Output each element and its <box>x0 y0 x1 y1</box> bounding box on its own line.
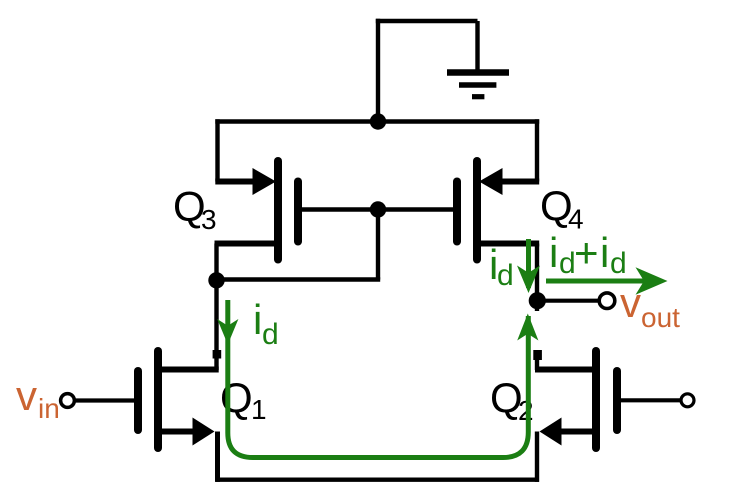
transistor Q4 source stub <box>502 179 539 185</box>
svg-text:out: out <box>641 302 680 333</box>
terminal Q2 gate open circle <box>681 394 694 407</box>
wire right column nub <box>533 350 542 360</box>
svg-text:v: v <box>620 279 641 326</box>
arrowhead id+id right <box>636 267 668 295</box>
svg-text:d: d <box>262 318 279 351</box>
transistor Q2 source arrow <box>540 418 562 446</box>
wire Vout lead <box>537 299 598 303</box>
svg-text:+: + <box>574 229 599 276</box>
svg-text:d: d <box>497 259 514 292</box>
wire top horizontal to ground <box>376 19 478 23</box>
transistor Q3 source stub <box>215 179 255 185</box>
transistor Q1 channel bar <box>154 351 162 448</box>
wire gate rail Q3-Q4 <box>300 207 456 211</box>
terminal Vout open circle <box>599 293 615 309</box>
wire right column lower segment (to Q2 drain) <box>535 351 539 371</box>
svg-text:i: i <box>600 229 609 276</box>
transistor Q2 channel bar <box>592 351 600 448</box>
svg-text:d: d <box>610 247 627 280</box>
white patch where green arrow box erases right column <box>515 311 543 350</box>
current arrow id+id output <box>546 279 652 284</box>
wire vin lead <box>75 398 135 402</box>
arrowhead id down (left branch) <box>217 319 238 345</box>
transistor Q1 source stub <box>158 429 196 435</box>
transistor Q4 gate bar <box>453 182 461 242</box>
transistor Q4 drain stub <box>479 241 539 247</box>
node rail-center junction dot <box>370 113 386 129</box>
node Vout junction dot <box>529 292 546 309</box>
current arrow id at Q4 drain <box>526 239 531 288</box>
transistor Q2 drain stub <box>535 367 596 373</box>
wire ground stub <box>475 21 479 70</box>
ground <box>447 73 509 97</box>
transistor Q3 drain stub <box>215 241 276 247</box>
wire left column nub <box>213 350 222 359</box>
transistor Q2 gate bar <box>613 371 621 430</box>
svg-text:2: 2 <box>518 395 534 426</box>
node left drain junction dot <box>208 272 224 288</box>
svg-text:1: 1 <box>251 394 267 425</box>
wire left column mid (Q3 drain to Q1 drain) <box>214 244 218 371</box>
transistor Q3 gate bar <box>294 182 302 242</box>
arrowhead id down (Q4 drain) <box>517 266 540 294</box>
transistor Q2 source stub <box>558 429 596 435</box>
wire diode-connect horizontal <box>217 277 381 281</box>
wire bottom rail <box>216 478 540 482</box>
wire VDD rail <box>215 119 539 123</box>
transistor Q4 channel bar <box>473 161 481 260</box>
svg-text:i: i <box>253 296 262 343</box>
transistor Q4 source arrow <box>479 168 503 195</box>
svg-text:Q: Q <box>220 374 253 421</box>
arrowhead id up (right branch) <box>517 314 538 341</box>
svg-text:i: i <box>549 229 558 276</box>
svg-text:in: in <box>38 393 60 424</box>
wire Q1 source vertical <box>215 432 220 482</box>
node gate junction dot <box>370 201 386 217</box>
terminal vin open circle <box>61 394 75 408</box>
wire left column upper (rail to Q3 source) <box>215 119 219 181</box>
svg-text:v: v <box>16 372 37 419</box>
wire right column upper (rail to Q4 source) <box>535 119 539 181</box>
transistor Q3 source arrow <box>253 168 277 195</box>
transistor Q1 source arrow <box>193 418 215 446</box>
current flow line id (green U path) <box>228 300 529 458</box>
wire top vertical to node <box>376 19 380 122</box>
wire Q2 gate lead <box>621 398 681 402</box>
wire right column upper segment (Q4 drain to Vout node) <box>535 244 539 312</box>
wire Q2 source vertical <box>535 432 539 482</box>
wire diode-connect vertical <box>376 210 380 280</box>
svg-text:3: 3 <box>201 204 217 235</box>
transistor Q3 channel bar <box>274 161 282 260</box>
transistor Q1 drain stub <box>158 367 219 373</box>
transistor Q1 gate bar <box>134 371 142 430</box>
